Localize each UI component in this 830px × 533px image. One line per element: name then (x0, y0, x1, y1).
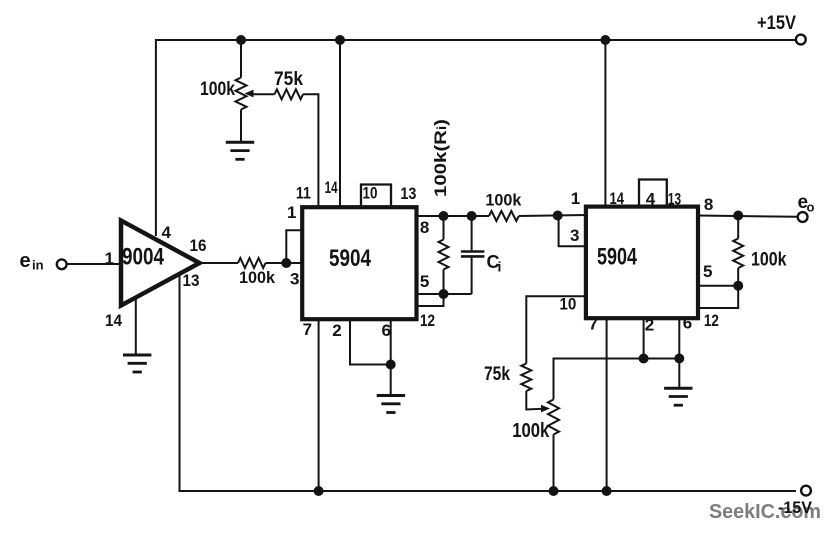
bottom-right terminal (801, 486, 811, 496)
output terminal e_o (798, 212, 808, 222)
svg-text:3: 3 (290, 270, 299, 289)
svg-text:5904: 5904 (329, 245, 372, 272)
svg-text:5904: 5904 (597, 244, 637, 271)
wire 75k to wiper arrow (526, 391, 543, 410)
U2 pin 6 wire (390, 319, 392, 365)
potentiometer 100k (bottom) body (548, 400, 559, 435)
ground (pot 100k) (226, 142, 254, 159)
U3 pin 5 stub (698, 285, 738, 287)
svg-text:100k: 100k (512, 420, 550, 442)
U3 pin1/pin3 jog (559, 216, 586, 246)
U2 pin 2 wire (350, 319, 391, 365)
resistor 100k (Ri) (489, 211, 519, 221)
pot wiper arrow (245, 90, 254, 98)
wire input to op-amp (67, 263, 121, 265)
svg-text:6: 6 (382, 321, 391, 340)
svg-text:12: 12 (704, 311, 719, 330)
svg-text:o: o (807, 200, 815, 215)
wire wiper to 75k (249, 93, 275, 95)
resistor 100k (op-amp out) (238, 258, 266, 268)
U2 pin 12 jog (415, 294, 444, 306)
IC U3 5904 box (586, 207, 698, 319)
U3 pin 2 wire (643, 318, 645, 359)
svg-text:1: 1 (571, 189, 580, 208)
U3 pin loop 4-13 (639, 180, 667, 206)
U3 pin 12 jog (698, 286, 738, 308)
wire to IC1 pin 3 (266, 262, 304, 264)
svg-text:10: 10 (559, 295, 576, 314)
wire pot to ground (240, 110, 242, 142)
svg-text:9004: 9004 (122, 244, 165, 271)
svg-text:100k: 100k (239, 268, 276, 287)
svg-text:5: 5 (703, 262, 712, 281)
svg-text:e: e (20, 250, 31, 272)
svg-text:12: 12 (420, 311, 435, 330)
bottom -15V rail (180, 274, 797, 491)
wire rail to IC1 pin 14 (335, 35, 345, 45)
pot2 bottom wire to rail (553, 435, 555, 492)
wire jog to pin 1 (286, 230, 303, 263)
load resistor 100k (U3 8-5) (737, 216, 739, 239)
U2 pin 8 run to right (415, 215, 490, 217)
svg-text:8: 8 (704, 195, 713, 214)
svg-text:11: 11 (296, 184, 311, 203)
+15V terminal (796, 35, 806, 45)
svg-text:-15V: -15V (778, 498, 813, 517)
node at U3 pin1 (553, 211, 563, 221)
svg-text:2: 2 (645, 316, 654, 335)
svg-text:100k: 100k (751, 250, 787, 271)
U2 pin 7 wire to bottom rail (318, 319, 320, 491)
svg-text:+15V: +15V (757, 13, 796, 34)
resistor 75k (bottom) (521, 364, 531, 392)
op-amp U1 9004 triangle (121, 221, 200, 306)
U3 pin 8 output run (698, 216, 798, 217)
wire pin5/cap bottom (415, 293, 472, 295)
svg-text:16: 16 (190, 236, 207, 255)
svg-text:75k: 75k (484, 363, 510, 385)
node junction at IC1 input (281, 258, 291, 268)
input terminal e_in (57, 259, 67, 269)
svg-text:100k(Ri): 100k(Ri) (431, 119, 450, 197)
node: rail junction to pot R2 (236, 35, 246, 45)
potentiometer 100k (bias) body (236, 78, 247, 110)
ground (U2 pins 2/6) (377, 396, 405, 413)
svg-text:7: 7 (303, 320, 312, 339)
top +15V rail (156, 40, 796, 236)
ground (op-amp pin 14) (123, 355, 151, 372)
IC U2 5904 box (302, 207, 416, 319)
svg-text:2: 2 (332, 321, 341, 340)
svg-text:13: 13 (400, 184, 416, 203)
svg-text:5: 5 (420, 272, 429, 291)
wire rail to IC2 pin 14 (600, 35, 610, 45)
wire Ri to IC2 (519, 215, 586, 216)
U3 pin 10 wire to 75k (526, 296, 586, 363)
svg-text:4: 4 (646, 190, 656, 209)
svg-text:14: 14 (325, 178, 338, 197)
svg-text:4: 4 (162, 223, 172, 242)
svg-text:75k: 75k (274, 68, 303, 90)
resistor 75k (top) (275, 89, 304, 99)
svg-text:i: i (498, 259, 502, 275)
wire 75k to pin 11 (303, 94, 318, 207)
wire op-amp output (200, 262, 239, 264)
node dots on pin8 run (439, 211, 449, 221)
feedback resistor U2 (8-5) (443, 216, 445, 240)
svg-text:14: 14 (105, 311, 122, 330)
svg-text:100k: 100k (485, 191, 522, 210)
U3 pin 6 wire (678, 318, 680, 359)
U2 pin loop 10-13 (361, 185, 391, 207)
svg-text:in: in (32, 258, 44, 273)
capacitor Ci (471, 216, 473, 250)
svg-text:3: 3 (570, 226, 579, 245)
pot2 wiper arrow (541, 405, 550, 413)
U3 pin 7 wire to bottom rail (606, 318, 608, 491)
svg-text:14: 14 (610, 189, 625, 208)
svg-text:100k: 100k (200, 78, 235, 100)
svg-text:13: 13 (668, 190, 682, 209)
svg-text:13: 13 (183, 271, 200, 290)
wire op-amp pin 14 to ground (135, 298, 137, 356)
svg-text:10: 10 (363, 184, 378, 203)
svg-text:6: 6 (683, 314, 692, 333)
svg-text:1: 1 (287, 203, 296, 222)
svg-text:8: 8 (420, 218, 429, 237)
pot2 top wire to U3 pins 2/6 (554, 359, 680, 400)
svg-text:1: 1 (105, 249, 114, 268)
svg-text:7: 7 (589, 315, 598, 334)
ground (U3 pins 2/6) (664, 388, 692, 405)
wire rail to pot (240, 40, 242, 78)
